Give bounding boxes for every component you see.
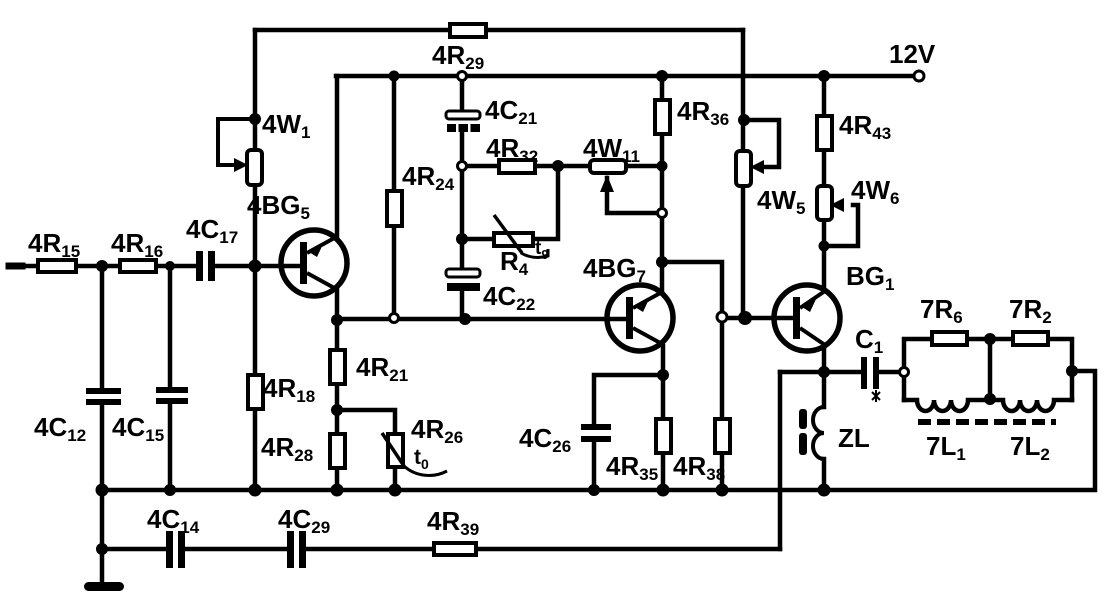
svg-text:ZL: ZL (838, 423, 870, 453)
node input/4C15 junction (165, 261, 175, 271)
resistor 4R32 (499, 160, 535, 173)
t9 underline of R4 (521, 249, 548, 257)
node 4R32/4W11 junction (552, 160, 564, 172)
wire 4R38 bottom (720, 453, 725, 490)
capacitor 4C12 (86, 388, 121, 394)
node tank top middle (984, 333, 996, 345)
resistor 7R6 (932, 332, 967, 345)
resistor 4R28 (330, 434, 345, 468)
resistor 4R43 (817, 116, 832, 150)
node 4R36 top on 12V rail (656, 70, 668, 82)
potentiometer 4W5 arrow (750, 160, 764, 174)
wire tank bottom 7L1 (904, 400, 990, 411)
potentiometer 4W5 body (736, 151, 751, 186)
node 4W1 top tap (249, 113, 261, 125)
wire 4BG5 emitter lead (335, 76, 340, 238)
capacitor 4C26 (581, 424, 611, 430)
junction 4R24 bottom (390, 314, 399, 323)
inductor ZL core bars (799, 409, 807, 429)
node ground 4R35 (657, 484, 670, 497)
wire input stub (9, 263, 22, 270)
wire ground rail (102, 371, 1095, 490)
junction 4W11 wiper to 4R36 column (658, 209, 667, 218)
transistor BG1 (774, 285, 840, 351)
capacitor 4C15 (156, 387, 188, 393)
wire BG1 collector lead (822, 346, 827, 372)
node BG1 output (818, 366, 830, 378)
wire 4BG7 to 4R38 branch (662, 262, 722, 419)
resistor 4R36 (655, 100, 670, 134)
capacitor 4C14 (166, 531, 173, 568)
thermistor 4R26 (388, 434, 403, 467)
potentiometer 4W11 body (590, 160, 626, 173)
wire top feedback (255, 28, 743, 33)
resistor 4R24 (387, 191, 402, 226)
potentiometer 4W1 wiper arm (218, 119, 255, 165)
node ground 4C26 (588, 484, 600, 496)
wire 4BG7 collector lead top (660, 262, 665, 290)
thermistor R4 (494, 233, 533, 246)
junction 4C21 column on 12V rail (458, 72, 467, 81)
t0 swash of 4R26 (404, 466, 447, 475)
junction 4R32 row left (458, 162, 467, 171)
resistor 4R21 (330, 350, 345, 384)
node 4BG5 collector (331, 314, 343, 326)
wire 4C15 column (168, 266, 173, 387)
node 4R24 top on 12V rail (389, 71, 400, 82)
resistor 4R35 (656, 419, 671, 453)
node input/4C12 junction (96, 260, 108, 272)
wire tank bottom 7L2 (990, 400, 1072, 411)
wire input line (11, 264, 196, 269)
wire 4R26 to rail (393, 467, 398, 490)
resistor 4R29 (450, 24, 486, 37)
potentiometer 4W11 arrow (600, 175, 614, 192)
wire 4W6 wiper loop (824, 205, 858, 246)
wire 4BG5 collector column (335, 288, 340, 490)
wire 4C21/4C22 column (460, 76, 465, 112)
node tank bottom middle (984, 393, 996, 405)
C1 polarity mark (872, 390, 880, 402)
resistor 4R39 (434, 543, 476, 555)
node 4W5 wiper tap (738, 114, 750, 126)
capacitor 4C21 electrolytic (446, 111, 480, 119)
node 4BG5 base (249, 260, 262, 273)
wire 4R26 branch (337, 410, 395, 434)
coupling core dashed line (918, 419, 1056, 425)
node ground 4C15 (164, 484, 176, 496)
wire output feedback vertical (778, 372, 783, 549)
resistor 4R38 (715, 419, 730, 453)
resistor 7R2 (1013, 332, 1048, 345)
node R4 branch (456, 233, 468, 245)
wire input after 4C17 (215, 264, 302, 269)
node 4R26 branch (331, 404, 343, 416)
wire 4W5 column from top wire (741, 30, 746, 151)
transistor 4BG5 (281, 230, 347, 296)
wire 4C15 bottom (168, 404, 173, 490)
wire 4W11 wiper (607, 178, 662, 213)
resistor 4R16 (120, 260, 156, 272)
wire 4R32 row (462, 164, 662, 169)
wire 4R36 column (660, 76, 665, 262)
transistor 4BG7 (607, 285, 673, 351)
inductor ZL coil (813, 407, 824, 459)
wire left vertical 4W1/base/4R18 column (253, 30, 258, 490)
terminal 12V (914, 71, 924, 81)
node tank right output (1066, 365, 1078, 377)
capacitor 4C29 (287, 531, 294, 568)
wire 4C12 bottom to ground symbol (100, 405, 105, 584)
wire 4R43/4W6 column (822, 76, 827, 289)
node ground 4R18 (249, 484, 262, 497)
wire output row C1 (780, 370, 861, 375)
wire collector to 4BG7 base (337, 317, 628, 322)
wire tank middle (988, 339, 993, 400)
wire ZL column (822, 372, 827, 407)
potentiometer 4W6 arrow (830, 198, 844, 212)
resistor 4R18 (248, 375, 263, 409)
node 4BG7 collector top (656, 256, 668, 268)
wire bottom row y549 (102, 547, 166, 552)
capacitor 4C17 (196, 251, 203, 281)
capacitor 4C22 electrolytic (446, 269, 480, 277)
wire tank top right (990, 339, 1072, 400)
wire 4W5 wiper loop (744, 120, 779, 167)
ground symbol (84, 582, 124, 591)
node ground 4C12 (96, 484, 109, 497)
potentiometer 4W1 body (247, 150, 262, 185)
node bottom row left (96, 543, 108, 555)
node 4R32 row to 4R36 column (657, 161, 668, 172)
resistor 4R15 (38, 260, 76, 272)
node ground 4R26 (389, 484, 402, 497)
node 4R43 top on 12V rail (818, 70, 830, 82)
wire tank left side (904, 339, 990, 400)
svg-text:12V: 12V (889, 39, 936, 69)
node ground 4R28 (331, 484, 344, 497)
wire 4C26 branch (594, 375, 663, 424)
potentiometer 4W6 body (817, 186, 832, 220)
wire 12V rail (336, 74, 915, 79)
junction 4R38 column on BG1 base wire (717, 312, 727, 322)
wire 4C12 column (100, 266, 105, 388)
capacitor C1 (861, 357, 867, 389)
node tank input terminal (900, 368, 909, 377)
node ground ZL (818, 484, 831, 497)
node 4C22 bottom junction (459, 313, 471, 325)
wire 4R24 column (392, 76, 397, 318)
node ground 4R38 (716, 484, 729, 497)
wire 4BG7 emitter lead bottom (661, 346, 666, 490)
node 4BG7 emitter (657, 369, 669, 381)
wire R4 row (462, 166, 558, 239)
node 4W6 bottom tap (819, 241, 830, 252)
wire BG1 base row (722, 316, 795, 321)
node BG1 base (738, 311, 752, 325)
